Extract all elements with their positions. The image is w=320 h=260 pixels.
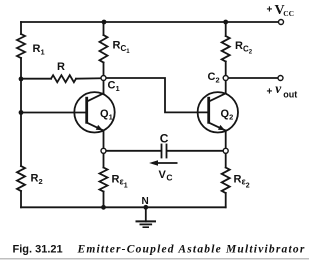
wire left branch middle xyxy=(20,58,22,166)
wire capacitor left xyxy=(106,150,161,152)
wire vout xyxy=(228,77,278,79)
wire R left lead xyxy=(21,78,51,80)
wire Q2 emitter xyxy=(225,130,227,148)
svg-text:CC: CC xyxy=(283,9,294,18)
wire cross-coupling C1 to Q2 base xyxy=(106,78,209,112)
resistor RC1 xyxy=(100,35,108,63)
svg-text:+: + xyxy=(267,5,273,16)
wire RE1 bottom lead xyxy=(103,192,105,208)
resistor R xyxy=(51,75,76,82)
svg-text:RC1: RC1 xyxy=(113,40,131,56)
wire Q1 collector xyxy=(103,80,105,93)
node dot bottom RE1 xyxy=(101,205,106,210)
wire RC2 top lead xyxy=(225,22,227,36)
svg-text:R1: R1 xyxy=(33,43,45,57)
transistor Q1 xyxy=(74,92,114,132)
svg-text:Emitter-Coupled Astable Multiv: Emitter-Coupled Astable Multivibrator xyxy=(77,244,306,256)
svg-text:C1: C1 xyxy=(108,80,120,94)
wire R right lead xyxy=(76,77,101,79)
capacitor C xyxy=(161,145,163,158)
wire RE2 bottom lead xyxy=(225,193,227,207)
svg-text:C: C xyxy=(160,131,169,145)
wire RC1 top lead xyxy=(103,22,105,35)
wire left branch upper xyxy=(20,22,22,34)
wire Q1 emitter xyxy=(103,130,105,148)
node E2 xyxy=(223,148,228,153)
wire capacitor right xyxy=(167,150,223,152)
node C2 xyxy=(223,76,228,81)
terminal +Vcc xyxy=(279,20,284,25)
resistor RC2 xyxy=(222,36,230,62)
wire bottom rail xyxy=(21,206,226,208)
svg-text:Rε1: Rε1 xyxy=(112,174,128,190)
wire top rail xyxy=(21,21,278,23)
VC arrow xyxy=(154,162,177,164)
svg-text:out: out xyxy=(283,90,297,100)
node dot top RC2 xyxy=(223,20,228,25)
wire left branch lower xyxy=(20,191,22,207)
transistor Q2 xyxy=(198,92,238,132)
wire RE2 top lead xyxy=(225,153,227,167)
svg-text:+: + xyxy=(267,86,273,97)
resistor RE2 xyxy=(222,168,230,194)
svg-text:Q1: Q1 xyxy=(100,108,113,122)
resistor R2 xyxy=(17,166,25,191)
svg-text:Rε2: Rε2 xyxy=(234,174,250,190)
svg-text:C2: C2 xyxy=(208,71,220,85)
resistor R1 xyxy=(17,34,25,58)
node dot Q1 base xyxy=(19,110,24,115)
wire RE1 top lead xyxy=(103,153,105,167)
node dot ground xyxy=(143,205,148,210)
svg-text:RC2: RC2 xyxy=(235,40,253,56)
node dot top RC1 xyxy=(102,20,107,25)
node dot left R junction xyxy=(19,77,24,82)
wire Q2 collector xyxy=(225,80,227,93)
ground xyxy=(137,220,156,222)
caption rule xyxy=(0,258,309,260)
wire ground stem xyxy=(145,207,147,221)
terminal vout xyxy=(278,76,283,81)
resistor RE1 xyxy=(100,168,108,192)
wire RC2 bottom lead xyxy=(225,62,227,76)
node E1 xyxy=(101,148,106,153)
node C1 xyxy=(101,76,106,81)
svg-text:R2: R2 xyxy=(31,173,43,187)
svg-text:N: N xyxy=(142,196,149,207)
wire Q1 base xyxy=(21,112,87,114)
svg-text:R: R xyxy=(57,61,65,73)
svg-text:Q2: Q2 xyxy=(221,108,234,122)
svg-text:v: v xyxy=(275,81,282,96)
wire RC1 bottom lead xyxy=(103,63,105,76)
svg-text:Fig. 31.21: Fig. 31.21 xyxy=(13,244,63,256)
svg-text:VC: VC xyxy=(159,169,173,183)
